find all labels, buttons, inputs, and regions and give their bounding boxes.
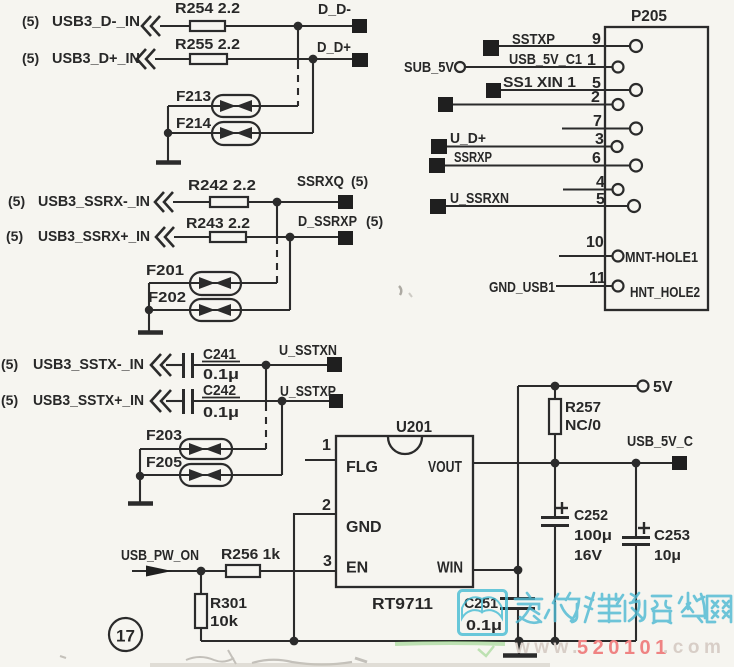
scan shade bottom edge <box>150 663 550 667</box>
resistor R301 <box>195 594 207 628</box>
svg-text:6: 6 <box>592 150 601 167</box>
junction node SSRXQ <box>273 198 282 207</box>
svg-text:0.1μ: 0.1μ <box>466 617 502 634</box>
pad D_D+ <box>352 53 368 67</box>
pin 11 circle <box>613 281 624 292</box>
svg-text:GND: GND <box>346 519 382 536</box>
input chevron USB3_SSTX-_IN <box>151 354 161 376</box>
fuse F213 <box>212 95 260 117</box>
svg-text:F214: F214 <box>176 115 212 132</box>
svg-text:.com: .com <box>663 637 725 658</box>
svg-text:P205: P205 <box>631 8 667 25</box>
svg-text:10μ: 10μ <box>654 547 681 564</box>
capacitor C252 plates <box>541 516 569 519</box>
svg-text:4: 4 <box>596 174 605 191</box>
wire node D_D+ down to F214 <box>312 59 314 133</box>
svg-text:F213: F213 <box>176 88 211 105</box>
fuse F213 bowtie <box>189 100 252 481</box>
green scan artifact line <box>395 643 505 656</box>
wire left junction vertical to ground <box>167 106 169 161</box>
wire pin5b U_SSRXN <box>446 205 628 207</box>
svg-text:9: 9 <box>592 31 601 48</box>
capacitor C253 plates <box>622 536 650 539</box>
svg-text:2: 2 <box>591 89 600 106</box>
junction F213/F214 left <box>164 129 172 137</box>
wire R254 to node D_D- <box>225 25 352 27</box>
pad pin2 <box>438 97 453 112</box>
wire through F201 <box>190 282 241 284</box>
wire F214 right <box>260 132 313 134</box>
wire USB3_D+_IN to R255 <box>155 58 190 60</box>
svg-text:5: 5 <box>596 191 605 208</box>
pad squares <box>146 19 687 577</box>
svg-text:U_SSTXP: U_SSTXP <box>280 383 336 400</box>
svg-text:R243 2.2: R243 2.2 <box>186 215 250 232</box>
fuse F202 bowtie <box>199 304 231 316</box>
pad SSRXQ <box>338 195 353 209</box>
wire node D_SSRXP down to F202 <box>289 237 291 310</box>
svg-text:1: 1 <box>322 437 331 454</box>
wire F201 left <box>149 282 190 284</box>
pin 2 circle <box>613 99 624 110</box>
wire pin11 GND_USB1 <box>556 285 612 287</box>
fuse F201 <box>190 272 241 295</box>
svg-text:USB3_SSTX-_IN: USB3_SSTX-_IN <box>33 356 144 373</box>
wire USB3_SSTX-_IN to C241 <box>166 364 182 366</box>
capacitor C251 plates <box>500 597 535 600</box>
svg-text:RT9711: RT9711 <box>372 596 433 613</box>
svg-text:R256 1k: R256 1k <box>221 546 281 563</box>
pin 7 circle <box>630 123 642 135</box>
wire pin1 USB_5V_C1 <box>465 66 613 68</box>
svg-text:NC/0: NC/0 <box>565 417 601 434</box>
capacitor C242 plates <box>182 389 185 414</box>
wire R255 to node D_D+ <box>227 58 352 60</box>
input chevron USB3_SSRX+_IN <box>156 227 165 247</box>
pad U_SSTXP <box>329 394 343 408</box>
plus sign C253 <box>638 527 650 529</box>
connector pin circles <box>455 40 649 392</box>
wire R257 bottom lead <box>554 434 556 463</box>
wire pin6 SSRXP <box>445 164 630 166</box>
svg-text:(5): (5) <box>351 173 368 189</box>
svg-text:0.1μ: 0.1μ <box>203 366 239 383</box>
svg-text:D_D-: D_D- <box>318 1 351 18</box>
wire R301 top <box>200 571 202 594</box>
fuse F203 <box>180 439 232 459</box>
wire C241 to node U_SSTXN <box>194 364 327 366</box>
svg-text:R242 2.2: R242 2.2 <box>188 177 256 194</box>
pad SSRXP <box>429 158 445 173</box>
svg-text:(5): (5) <box>22 13 39 29</box>
pad D_D- <box>352 19 367 33</box>
wire R301 bottom <box>200 628 202 641</box>
junction node D_SSRXP <box>286 233 295 242</box>
wire R243 to node D_SSRXP <box>246 236 338 238</box>
svg-text:F203: F203 <box>146 427 182 444</box>
svg-text:F202: F202 <box>148 289 186 306</box>
svg-text:5V: 5V <box>653 379 673 396</box>
resistor R256 <box>226 565 260 577</box>
ground block3 <box>128 501 153 506</box>
resistor R243 <box>210 232 246 242</box>
fuse F205 bowtie <box>189 469 221 481</box>
terminal 5V <box>638 381 649 392</box>
junction 5V rail R257 <box>551 382 560 391</box>
wire pin10 <box>559 255 612 257</box>
wire pin2 <box>453 103 613 105</box>
wire IC ground stub <box>518 641 520 654</box>
pin 1 circle <box>613 62 624 73</box>
wire C252 top lead <box>554 463 556 516</box>
svg-text:R301: R301 <box>210 595 247 612</box>
wire through F203 <box>180 448 232 450</box>
wire left junction vertical to ground <box>148 283 150 331</box>
svg-text:U201: U201 <box>396 419 432 436</box>
svg-text:(5): (5) <box>6 228 23 244</box>
resistor R257 <box>549 399 561 434</box>
svg-text:7: 7 <box>593 113 602 130</box>
svg-text:FLG: FLG <box>346 459 378 476</box>
svg-text:(5): (5) <box>22 50 39 66</box>
wire through F205 <box>180 474 232 476</box>
wire pin9 SSTXP <box>499 45 630 47</box>
wire R256 to EN pin3 <box>260 570 336 572</box>
svg-text:USB_PW_ON: USB_PW_ON <box>121 547 199 564</box>
svg-text:SSRXQ: SSRXQ <box>297 173 344 190</box>
junction F203/F205 left <box>136 472 144 480</box>
input chevron USB3_D+_IN <box>137 49 146 69</box>
svg-text:0.1μ: 0.1μ <box>203 404 239 421</box>
connector P205 body <box>605 27 708 310</box>
wire C242 to node U_SSTXP <box>194 400 329 402</box>
wire ground rail bottom <box>201 640 636 642</box>
arrow USB_PW_ON <box>146 566 172 577</box>
capacitor C241 plates <box>128 163 650 656</box>
plus sign C252 <box>556 502 650 534</box>
wire USB_PW_ON arrow to junction <box>132 570 201 572</box>
wire node D_D- down dashed to F213 <box>297 26 299 62</box>
op-amp U201 body <box>336 27 708 587</box>
svg-text:10: 10 <box>586 234 604 251</box>
input chevron USB3_SSRX-_IN <box>155 192 164 212</box>
svg-text:U_D+: U_D+ <box>450 130 486 147</box>
wire through F202 <box>190 309 241 311</box>
pin 10 circle <box>613 251 624 262</box>
pin 3 circle <box>612 141 623 152</box>
svg-text:R255 2.2: R255 2.2 <box>175 36 240 53</box>
wire F213 left <box>168 105 212 107</box>
svg-text:C253: C253 <box>654 527 690 544</box>
svg-text:520101: 520101 <box>577 637 671 659</box>
svg-text:100μ: 100μ <box>574 527 612 544</box>
wire riser x518 to C251 <box>517 570 519 597</box>
svg-text:VOUT: VOUT <box>428 459 462 476</box>
svg-text:C241: C241 <box>203 346 236 363</box>
svg-text:U_SSTXN: U_SSTXN <box>279 342 337 359</box>
scan smudges bottom <box>60 650 367 665</box>
wire F202 right <box>241 309 290 311</box>
junction GND pin2 at rail <box>290 637 299 646</box>
watermark url <box>514 637 725 659</box>
ground block2 <box>138 330 163 335</box>
wire F214 left <box>168 132 212 134</box>
wire F203 right <box>232 448 266 450</box>
wire C253 top lead <box>635 463 637 536</box>
svg-text:EN: EN <box>346 560 368 577</box>
svg-text:USB3_SSTX+_IN: USB3_SSTX+_IN <box>33 392 144 409</box>
wire left junction vertical to ground <box>139 449 141 502</box>
wire through F214 <box>212 132 260 134</box>
watermark logo book <box>459 591 507 635</box>
svg-text:(5): (5) <box>8 193 25 209</box>
resistor R242 <box>210 197 248 207</box>
svg-text:3: 3 <box>323 553 332 570</box>
svg-text:(5): (5) <box>1 392 18 408</box>
wire C252 bottom lead <box>554 527 556 641</box>
svg-text:USB3_SSRX+_IN: USB3_SSRX+_IN <box>38 228 150 245</box>
svg-text:SSTXP: SSTXP <box>512 31 555 48</box>
svg-text:SS1 XIN 1: SS1 XIN 1 <box>503 74 576 91</box>
pin 4 circle <box>613 184 624 195</box>
wire pin5 SS1 XIN 1 <box>501 89 630 91</box>
svg-text:16V: 16V <box>574 547 602 564</box>
wire GND pin2 route <box>294 514 336 641</box>
svg-text:www.: www. <box>514 637 582 658</box>
svg-text:USB_5V_C1: USB_5V_C1 <box>509 51 582 68</box>
wire junction to R256 <box>201 570 226 572</box>
svg-text:GND_USB1: GND_USB1 <box>489 279 555 296</box>
wire R257 top lead <box>554 386 556 399</box>
wire VOUT line to USB_5V_C pad <box>473 462 672 464</box>
svg-text:1: 1 <box>587 52 596 69</box>
wire F203 left <box>140 448 180 450</box>
wire R242 to node SSRXQ <box>248 201 338 203</box>
svg-text:F205: F205 <box>146 454 182 471</box>
pin 6 circle <box>630 160 642 172</box>
svg-text:(5): (5) <box>366 213 383 229</box>
wire F202 left <box>149 309 190 311</box>
watermark chinese text <box>515 593 731 623</box>
svg-text:USB3_D+_IN: USB3_D+_IN <box>52 50 140 67</box>
resistor R254 <box>190 21 225 31</box>
wire F205 right <box>232 474 282 476</box>
wire pin3 U_D+ <box>447 145 612 147</box>
wire pin4 <box>563 188 613 190</box>
svg-text:USB_5V_C: USB_5V_C <box>627 433 693 450</box>
junction node D_D+ <box>309 55 318 64</box>
scan artifact comma <box>399 286 401 295</box>
svg-text:F201: F201 <box>146 262 184 279</box>
wire USB3_SSRX+_IN to R243 <box>174 236 210 238</box>
wire C253 bottom lead <box>635 546 637 641</box>
pin 9 circle <box>630 40 642 52</box>
junction F201/F202 left <box>145 306 153 314</box>
wire 5V top rail <box>518 385 637 387</box>
junction C251 at rail <box>515 637 524 646</box>
junction node U_SSTXN <box>262 361 271 370</box>
svg-text:D_D+: D_D+ <box>317 39 351 56</box>
ground U201 <box>503 653 537 658</box>
wire WIN to riser <box>473 569 518 571</box>
svg-text:R257: R257 <box>565 399 601 416</box>
ground block1 <box>128 163 537 656</box>
wire node SSRXQ down dashed to F201 <box>276 202 278 237</box>
svg-text:SSRXP: SSRXP <box>454 149 492 166</box>
wire FLG pin1 stub <box>305 459 336 461</box>
junction VOUT C253 <box>632 459 641 468</box>
svg-text:D_SSRXP: D_SSRXP <box>298 213 357 230</box>
svg-text:R254 2.2: R254 2.2 <box>175 0 240 17</box>
wire USB3_SSTX+_IN to C242 <box>166 400 182 402</box>
svg-text:3: 3 <box>595 131 604 148</box>
svg-text:2: 2 <box>322 497 331 514</box>
svg-text:USB3_D-_IN: USB3_D-_IN <box>52 13 140 30</box>
svg-text:17: 17 <box>116 627 135 646</box>
input chevron USB3_D-_IN <box>137 16 174 412</box>
svg-text:C242: C242 <box>203 382 236 399</box>
junction WIN riser <box>514 566 523 575</box>
wire node U_SSTXN down dashed to F203 <box>265 365 267 404</box>
input chevron USB3_SSTX+_IN <box>151 390 161 412</box>
wire node U_SSTXP down to F205 <box>281 401 283 475</box>
wire F201 right <box>241 282 277 284</box>
pad U_SSRXN <box>430 199 446 214</box>
fuse F205 <box>180 464 232 486</box>
pad U_SSTXN <box>327 357 342 372</box>
junction C252 at rail <box>551 637 560 646</box>
U201 notch <box>388 437 422 454</box>
svg-text:C252: C252 <box>574 507 608 524</box>
underline C241 <box>202 361 240 363</box>
wire pin7 <box>562 127 630 129</box>
wire through F213 <box>212 105 260 107</box>
svg-text:11: 11 <box>589 270 606 287</box>
svg-text:SUB_5V: SUB_5V <box>404 59 454 76</box>
wire F205 left <box>140 474 180 476</box>
pad SSTXP <box>483 40 499 56</box>
svg-text:WIN: WIN <box>437 560 463 577</box>
wire USB3_D-_IN to R254 <box>160 25 190 27</box>
fuse F214 <box>212 122 260 145</box>
pin 5b circle <box>628 200 640 212</box>
svg-text:HNT_HOLE2: HNT_HOLE2 <box>630 284 700 301</box>
svg-text:U_SSRXN: U_SSRXN <box>450 190 509 207</box>
svg-text:10k: 10k <box>210 613 239 630</box>
pad USB_5V_C <box>672 456 687 470</box>
fuse F201 bowtie <box>199 277 231 289</box>
pad U_D+ <box>431 139 447 154</box>
svg-text:MNT-HOLE1: MNT-HOLE1 <box>625 249 698 266</box>
svg-text:(5): (5) <box>1 356 18 372</box>
junction node U_SSTXP <box>278 397 287 406</box>
terminal SUB_5V <box>455 62 465 72</box>
resistor R255 <box>190 54 227 64</box>
wire riser x518 top <box>517 386 519 570</box>
junction VOUT R257/C252 <box>551 459 560 468</box>
wire C251 bottom to rail <box>517 610 519 641</box>
pad SS1 XIN 1 <box>486 83 501 98</box>
pin 5 circle <box>630 84 642 96</box>
pad D_SSRXP <box>338 231 353 245</box>
circled 17 <box>109 618 142 651</box>
underline C242 <box>202 397 240 399</box>
fuse F202 <box>190 299 241 321</box>
wire USB3_SSRX-_IN to R242 <box>173 201 210 203</box>
fuse F214 bowtie <box>220 127 252 139</box>
junction node D_D- <box>294 22 303 31</box>
junction USB_PW_ON/R301 <box>197 567 206 576</box>
svg-text:USB3_SSRX-_IN: USB3_SSRX-_IN <box>38 193 150 210</box>
wire F213 right <box>260 105 298 107</box>
fuse F203 bowtie <box>189 443 221 455</box>
